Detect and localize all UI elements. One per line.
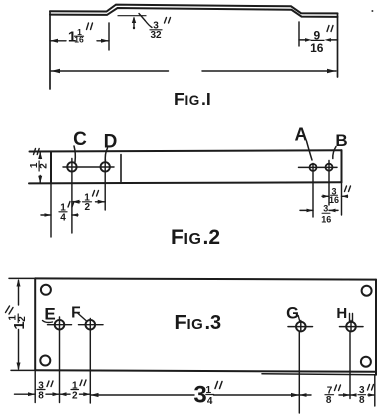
dimension 3/16 (A to B) lower bbox=[300, 209, 338, 211]
dimension 1 1/16" bbox=[108, 23, 110, 50]
svg-text:16: 16 bbox=[310, 41, 324, 55]
thin extension of lower edge at step bbox=[118, 15, 146, 17]
centerline C-D bbox=[63, 166, 114, 168]
corner holes bbox=[41, 285, 51, 295]
plate edge extensions below bbox=[34, 370, 36, 402]
label FIG.2 bbox=[171, 226, 220, 249]
hole D bbox=[101, 162, 110, 171]
svg-text:C: C bbox=[73, 129, 87, 150]
svg-text:2: 2 bbox=[85, 202, 91, 213]
doubled bottom edge right bbox=[262, 374, 376, 375]
3/8" left bbox=[15, 393, 60, 395]
svg-text:2: 2 bbox=[72, 391, 78, 402]
svg-text:8: 8 bbox=[38, 391, 44, 402]
hole A bbox=[310, 164, 317, 171]
3 1/4" bbox=[90, 394, 299, 396]
svg-text:16: 16 bbox=[329, 195, 339, 205]
label FIG.3 bbox=[175, 312, 222, 334]
svg-text:4: 4 bbox=[60, 213, 66, 224]
left edge extension below bbox=[50, 183, 52, 237]
left edge / extension line bbox=[49, 11, 51, 89]
overall dimension line fig1 bbox=[51, 70, 336, 72]
svg-text:.3: .3 bbox=[205, 312, 222, 334]
7/8" bbox=[299, 394, 350, 396]
3/8" right bbox=[350, 394, 375, 396]
strip rectangle bbox=[30, 150, 342, 151]
leader for 3/32 bbox=[139, 14, 152, 28]
svg-text:A: A bbox=[295, 124, 308, 144]
hole H + crosshair bbox=[346, 322, 356, 332]
dimension 3/16" (B to right edge) upper bbox=[322, 195, 348, 197]
scan speck bbox=[371, 10, 373, 12]
inch marks for 3/32 bbox=[165, 18, 171, 24]
strip profile bottom line bbox=[50, 8, 338, 17]
small up arrow (3/32 step) bbox=[133, 18, 135, 29]
svg-text:16: 16 bbox=[321, 215, 331, 225]
svg-text:D: D bbox=[104, 132, 118, 153]
vertical extension lines A,B bbox=[312, 164, 314, 218]
svg-text:.I: .I bbox=[201, 89, 211, 109]
1 1/2" vertical dimension left bbox=[9, 277, 35, 279]
svg-text:.2: .2 bbox=[203, 226, 221, 249]
hole B bbox=[326, 164, 333, 171]
svg-text:F: F bbox=[71, 305, 80, 322]
hole G + crosshair bbox=[296, 322, 306, 332]
svg-text:8: 8 bbox=[326, 395, 332, 406]
svg-text:8: 8 bbox=[359, 395, 365, 406]
svg-text:E: E bbox=[44, 304, 55, 323]
right edge extension below bbox=[341, 182, 343, 215]
right edge / extension line bbox=[337, 13, 339, 77]
dimension 1/2" (C to D) bbox=[72, 201, 105, 203]
strip profile top line bbox=[50, 5, 338, 14]
svg-text:IG: IG bbox=[185, 93, 200, 108]
text 3/32" bbox=[150, 21, 162, 42]
svg-text:F: F bbox=[175, 312, 187, 334]
vertical centerlines C,D bbox=[71, 159, 73, 234]
dimension 9/16" bbox=[298, 22, 300, 46]
svg-text:G: G bbox=[286, 304, 299, 322]
vertical extension lines below E,F,G,H bbox=[59, 330, 61, 403]
label FIG.1 bbox=[174, 89, 211, 109]
svg-text:2: 2 bbox=[39, 163, 50, 169]
svg-text:IG: IG bbox=[187, 316, 204, 333]
svg-text:IG: IG bbox=[184, 231, 202, 248]
svg-text:3: 3 bbox=[323, 204, 328, 214]
plate rectangle bbox=[35, 278, 376, 279]
hole F + crosshair bbox=[86, 320, 96, 330]
centerline A-B bbox=[299, 166, 338, 168]
hole E + crosshair bbox=[55, 320, 65, 330]
svg-text:32: 32 bbox=[150, 30, 162, 41]
svg-text:B: B bbox=[335, 131, 347, 150]
left 1/2" vertical dimension bbox=[39, 152, 41, 183]
dimension 1/4" (edge to C) bbox=[41, 214, 78, 216]
svg-text:F: F bbox=[171, 226, 184, 249]
1/2" bbox=[60, 393, 91, 395]
svg-text:H: H bbox=[336, 305, 347, 322]
svg-text:F: F bbox=[174, 89, 185, 109]
svg-text:4: 4 bbox=[207, 396, 213, 407]
hole C bbox=[67, 162, 76, 171]
bend line bbox=[120, 155, 122, 182]
